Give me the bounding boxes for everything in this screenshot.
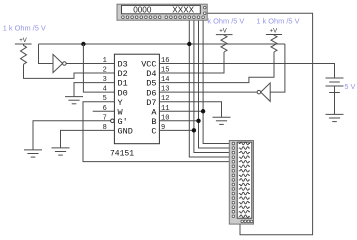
node D: junction dot v3/pin10 bbox=[196, 119, 200, 123]
svg-text:D5: D5 bbox=[146, 79, 156, 89]
svg-text:D1: D1 bbox=[118, 79, 128, 89]
wire v1: display pin to VCC rail and resistor pack pin 4 bbox=[189, 20, 232, 157]
svg-text:Y: Y bbox=[118, 98, 123, 108]
resistor R1 (1k pull-up, vertical) bbox=[221, 35, 227, 52]
op-amp U3 (inverter, pointing left) bbox=[257, 83, 270, 102]
svg-text:6: 6 bbox=[103, 105, 107, 113]
wire: chip pin 16 VCC to battery + bbox=[159, 64, 334, 79]
op-amp U1 74151 chip body bbox=[114, 54, 159, 144]
wire: inverter U2 output to chip pin 1 (D3) bbox=[66, 63, 114, 65]
node B: junction dot rail/v1 bbox=[187, 42, 191, 46]
svg-text:8: 8 bbox=[103, 124, 107, 132]
svg-text:74151: 74151 bbox=[110, 150, 134, 159]
svg-text:0000: 0000 bbox=[133, 6, 152, 15]
battery V1 5V bbox=[326, 78, 344, 114]
wire: chip pin 6 (W) stub, unconnected bbox=[93, 110, 115, 112]
svg-text:+V: +V bbox=[19, 38, 27, 44]
wire: signal rail (D0 net) from inverter riser to x=284.9 bbox=[39, 43, 285, 45]
ground GND3 bbox=[52, 148, 70, 155]
wire: rail down to chip pin 4 (D0) bbox=[83, 44, 114, 92]
display pins row bbox=[122, 6, 207, 18]
resistor pack pins bbox=[232, 142, 253, 223]
svg-text:B: B bbox=[151, 117, 156, 127]
ground GND5 bbox=[213, 117, 231, 124]
svg-text:C: C bbox=[151, 126, 156, 136]
wire: chip pin 8 (GND) to ground GND3 bbox=[61, 130, 115, 148]
svg-text:4: 4 bbox=[103, 86, 107, 94]
power +V symbol for R1 bbox=[216, 29, 233, 35]
svg-text:+V: +V bbox=[270, 29, 278, 35]
pin bubble on pin 7 G' bbox=[111, 119, 115, 123]
node A: rail junction dot to pin 4 bbox=[81, 42, 85, 46]
wire: rail riser to inverter U2 input bbox=[39, 44, 54, 64]
svg-text:2: 2 bbox=[103, 67, 107, 75]
resistor pack RP1 bbox=[229, 141, 253, 225]
svg-text:D2: D2 bbox=[118, 69, 128, 79]
wire: chip pin 10 (B) to display column v3 bbox=[159, 120, 198, 122]
wire: R2 bottom to chip pin 14 (D5) jogged bbox=[159, 52, 274, 83]
wire: chip pin 3 (D1) to ground GND1 bbox=[74, 83, 114, 97]
svg-text:D3: D3 bbox=[118, 60, 128, 70]
svg-text:1 k Ohm /5 V: 1 k Ohm /5 V bbox=[3, 23, 46, 32]
svg-text:D6: D6 bbox=[146, 88, 156, 98]
svg-text:1: 1 bbox=[103, 57, 107, 65]
ground GND1 bbox=[65, 97, 83, 104]
svg-text:k Ohm /5 V: k Ohm /5 V bbox=[207, 17, 244, 26]
wire v4: display pin to pack pin 1 bbox=[203, 20, 232, 143]
svg-text:+V: +V bbox=[219, 29, 227, 35]
svg-text:A: A bbox=[151, 107, 157, 117]
svg-text:1 k Ohm /5 V: 1 k Ohm /5 V bbox=[256, 17, 299, 26]
svg-text:XXXX: XXXX bbox=[172, 6, 194, 15]
svg-text:W: W bbox=[118, 107, 124, 117]
svg-text:D4: D4 bbox=[146, 69, 156, 79]
ground GND2 bbox=[24, 150, 42, 157]
svg-text:VCC: VCC bbox=[141, 60, 156, 70]
svg-text:G': G' bbox=[118, 117, 128, 127]
wire: chip pin 13 (D6) to inverter U3 output bbox=[159, 91, 257, 93]
display U4 (LCD module) bbox=[117, 4, 207, 20]
resistor R0 (1k pull-up, vertical) bbox=[21, 44, 27, 64]
wire: chip pin 12 (D7) to ground GND5 bbox=[159, 102, 221, 118]
wire: chip pin 9 (C) to display column v2 bbox=[159, 129, 194, 131]
wire: inverter U3 input riser to VCC rail bbox=[270, 44, 285, 92]
wire: chip pin 11 (A) to display column v4 bbox=[159, 110, 203, 112]
power +V symbol for R0 bbox=[15, 38, 32, 44]
svg-text:D0: D0 bbox=[118, 88, 128, 98]
svg-text:5: 5 bbox=[103, 95, 107, 103]
resistor R2 (1k pull-up, vertical) bbox=[271, 35, 277, 53]
op-amp U2 (inverter, left) bbox=[53, 54, 66, 72]
wire: R0 bottom to chip pin 2 (D2) bbox=[24, 64, 115, 78]
wire: R1 bottom to chip pin 15 (D4) bbox=[159, 52, 224, 73]
resistor pack internal resistors bbox=[239, 142, 250, 217]
svg-text:3: 3 bbox=[103, 76, 107, 84]
power +V symbol for R2 bbox=[266, 29, 282, 35]
wire: chip pin 7 (G') to ground GND2 bbox=[33, 121, 111, 150]
wire: display right pin to resistor pack common (bottom) bbox=[206, 13, 312, 235]
svg-text:D7: D7 bbox=[146, 98, 156, 108]
svg-text:5 V: 5 V bbox=[344, 82, 355, 91]
svg-text:GND: GND bbox=[118, 126, 133, 136]
wire v2: display pin to pack pin 3 bbox=[194, 20, 232, 152]
ground GND4 (battery) bbox=[326, 114, 344, 121]
wire v3: display pin to pack pin 2 bbox=[199, 20, 233, 148]
svg-text:7: 7 bbox=[103, 114, 107, 122]
node C: junction dot v4/pin11 bbox=[201, 109, 205, 113]
node E: junction dot v2/pin9 bbox=[192, 128, 196, 132]
wire: chip pin 5 (Y) down and right to resistor pack pin 5 bbox=[83, 102, 232, 162]
